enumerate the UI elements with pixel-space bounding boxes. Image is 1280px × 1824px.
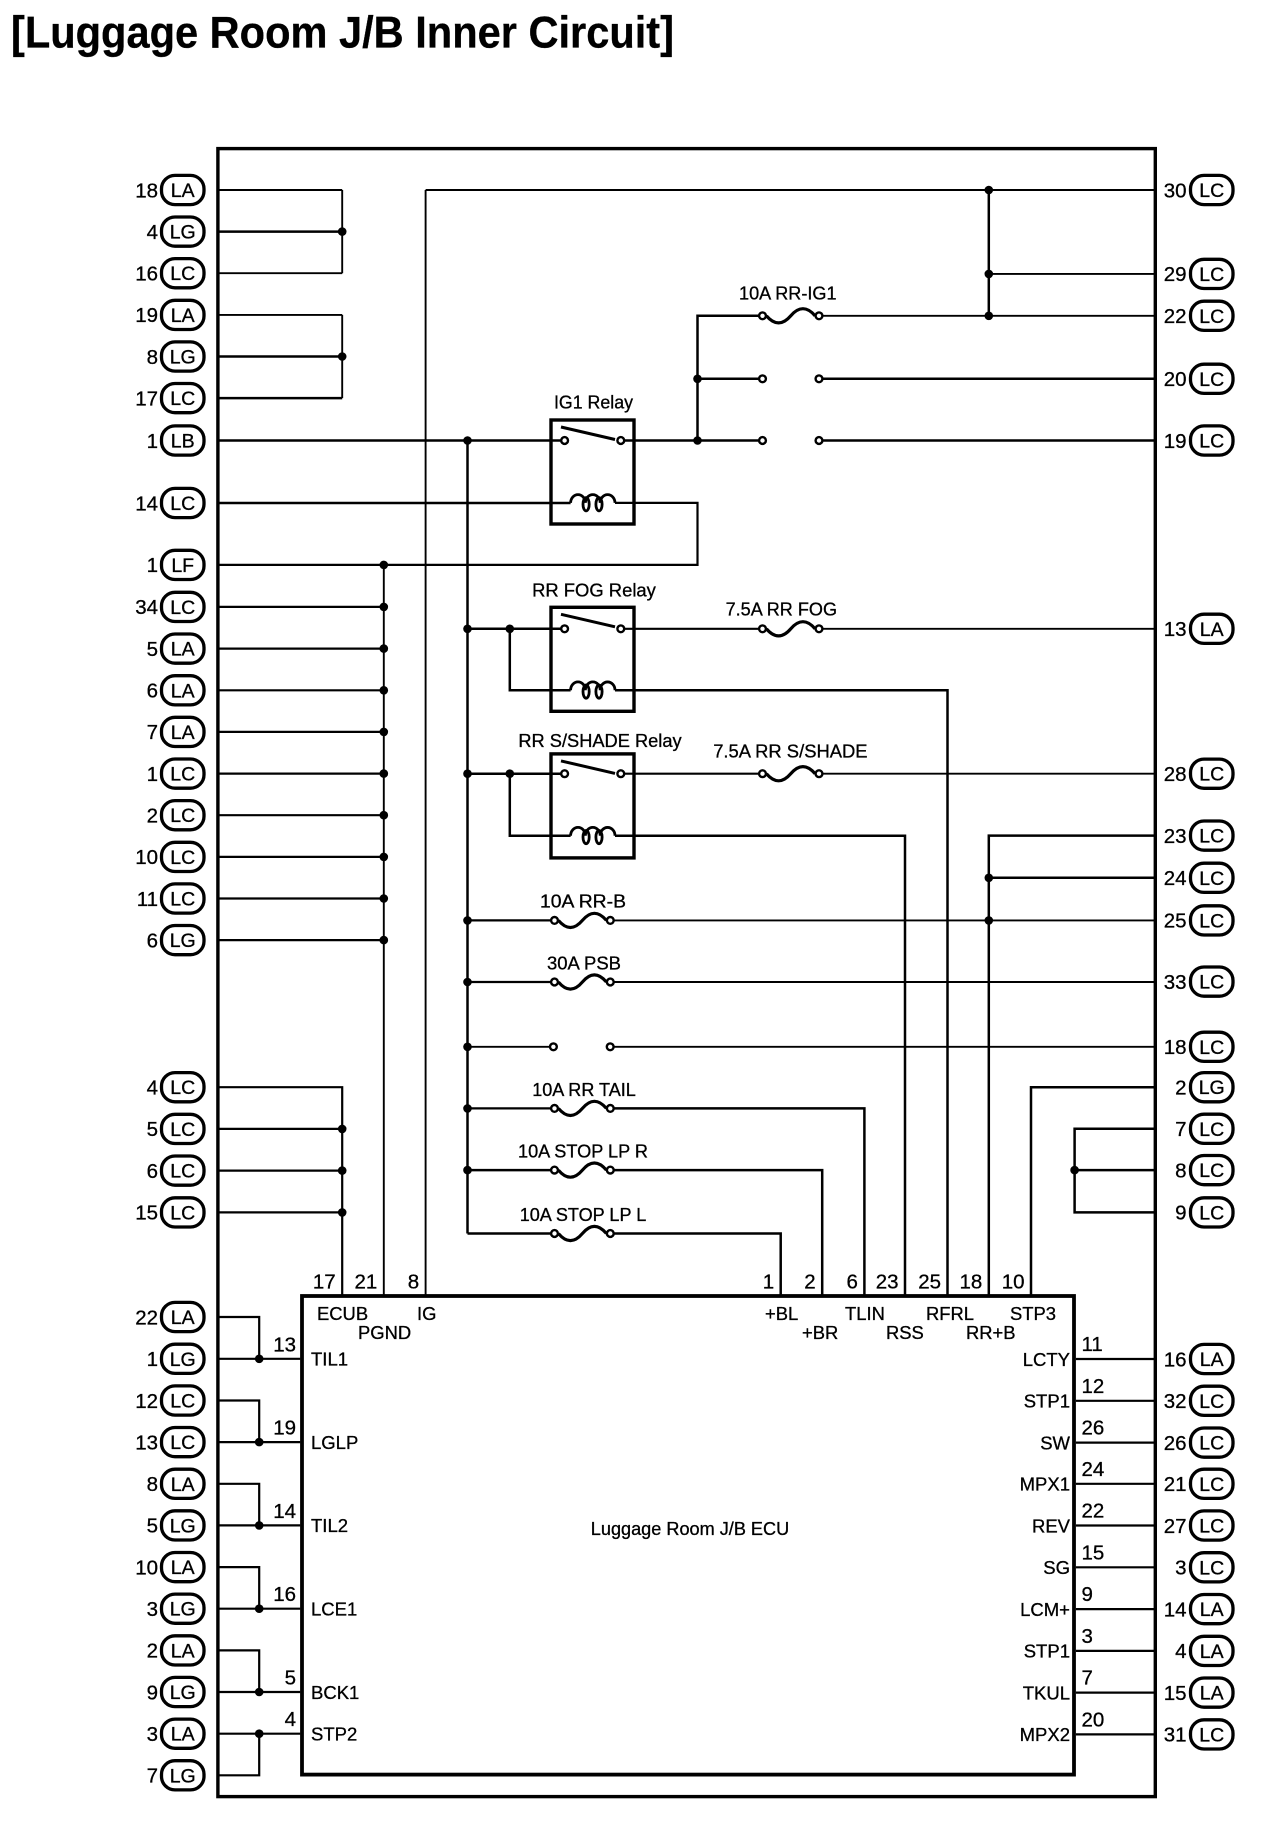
wire ECU pin 20 MPX2 to right pin <box>1076 1733 1154 1735</box>
node PGND junction 1 LC <box>380 769 389 778</box>
svg-text:4: 4 <box>147 1077 158 1100</box>
node ECUB junction 6 LC <box>338 1166 347 1175</box>
wire pin 19 LA <box>219 314 342 316</box>
svg-text:24: 24 <box>1164 867 1187 890</box>
wire RR FOG contact to fuse <box>625 628 759 630</box>
svg-text:LC: LC <box>1199 972 1224 994</box>
right connector pin 9 LC <box>1175 1198 1233 1227</box>
svg-text:8: 8 <box>147 346 158 369</box>
svg-text:8: 8 <box>1175 1159 1186 1182</box>
terminal pair 19 LC row <box>759 437 766 444</box>
svg-text:LC: LC <box>1199 180 1224 202</box>
svg-text:5: 5 <box>147 1118 158 1141</box>
left connector pin 11 LC <box>137 884 204 913</box>
wire pin 13 LC to ECU pin 19 <box>219 1441 300 1443</box>
svg-text:LA: LA <box>1200 1683 1224 1705</box>
left connector pin 10 LC <box>135 842 204 871</box>
svg-text:29: 29 <box>1164 263 1187 286</box>
svg-text:IG: IG <box>417 1303 436 1324</box>
svg-text:RR+B: RR+B <box>966 1322 1016 1343</box>
svg-text:3: 3 <box>147 1598 158 1621</box>
svg-text:20: 20 <box>1164 368 1187 391</box>
wire pin 5 LC <box>219 1128 342 1130</box>
svg-text:LA: LA <box>1200 1599 1224 1621</box>
terminal pair spare row <box>550 1043 557 1050</box>
wire ECU pin 15 SG to right pin <box>1076 1566 1154 1568</box>
svg-text:LG: LG <box>1199 1077 1225 1099</box>
left connector pin 34 LC <box>135 592 204 621</box>
svg-text:TIL2: TIL2 <box>311 1515 348 1536</box>
wire fuse RR TAIL to ECU pin 6 TLIN <box>614 1108 864 1296</box>
svg-text:4: 4 <box>147 221 158 244</box>
svg-text:7: 7 <box>1082 1667 1093 1690</box>
right connector pin 15 LA <box>1164 1678 1233 1707</box>
wire pin 15 LC <box>219 1211 342 1213</box>
wire RR S/SHADE coil feed <box>510 774 571 836</box>
svg-text:RSS: RSS <box>886 1322 924 1343</box>
svg-text:2: 2 <box>147 805 158 828</box>
svg-text:19: 19 <box>135 304 158 327</box>
svg-text:4: 4 <box>285 1708 296 1731</box>
svg-text:LA: LA <box>171 1474 195 1496</box>
left connector pin 4 LC <box>147 1073 204 1102</box>
svg-text:7: 7 <box>1175 1118 1186 1141</box>
fuse 7.5A RR FOG <box>759 625 766 632</box>
svg-text:LC: LC <box>1199 910 1224 932</box>
wire pin 4 LG <box>219 230 342 233</box>
svg-text:14: 14 <box>273 1500 296 1523</box>
node PGND junction 6 LA <box>380 686 389 695</box>
svg-text:3: 3 <box>1175 1557 1186 1580</box>
node 29 LC junction <box>985 270 994 279</box>
node IG1 output junction <box>693 436 702 445</box>
wire RR FOG coil to ECU pin 25 RFRL <box>615 690 948 1296</box>
svg-text:10: 10 <box>1002 1271 1025 1294</box>
svg-text:17: 17 <box>313 1271 336 1294</box>
svg-text:STP1: STP1 <box>1024 1391 1070 1412</box>
left connector pin 14 LC <box>135 488 204 517</box>
wire IG1 relay output to fuse <box>698 316 759 441</box>
svg-text:7: 7 <box>147 1765 158 1788</box>
svg-text:8: 8 <box>408 1271 419 1294</box>
svg-text:[Luggage Room J/B Inner Circui: [Luggage Room J/B Inner Circuit] <box>11 9 674 58</box>
wire fuse RR FOG to pin 13 LA <box>823 628 1154 630</box>
svg-text:LA: LA <box>171 305 195 327</box>
wire bus 30-29-22 LC <box>988 190 991 316</box>
right connector pin 13 LA <box>1164 614 1233 643</box>
node RR FOG feed 1 <box>463 625 472 634</box>
svg-text:LC: LC <box>1199 431 1224 453</box>
wire ECU pin 12 STP1 to right pin <box>1076 1400 1154 1402</box>
svg-text:LC: LC <box>1199 868 1224 890</box>
svg-text:RR FOG Relay: RR FOG Relay <box>532 580 657 601</box>
wire RR+B to RR FOG relay <box>468 628 561 631</box>
right connector pin 3 LC <box>1175 1553 1233 1582</box>
wire net IG horizontal to pin 30 LC <box>426 189 1154 191</box>
svg-text:33: 33 <box>1164 971 1187 994</box>
relay RR S/SHADE Relay switch arm <box>561 761 615 774</box>
wire ECU pin 22 REV to right pin <box>1076 1524 1154 1526</box>
node junction 1 LG <box>255 1355 264 1364</box>
svg-text:9: 9 <box>147 1681 158 1704</box>
node RR+B tap PSB <box>463 978 472 987</box>
right connector pin 29 LC <box>1164 259 1233 288</box>
wire pin 14 LC to IG1 relay coil <box>219 502 571 505</box>
right connector pin 30 LC <box>1164 175 1233 204</box>
svg-text:LA: LA <box>171 639 195 661</box>
node PGND junction 2 LC <box>380 811 389 820</box>
node PGND junction 34 LC <box>380 603 389 612</box>
svg-text:27: 27 <box>1164 1515 1187 1538</box>
svg-text:1: 1 <box>147 554 158 577</box>
svg-text:SG: SG <box>1043 1557 1070 1578</box>
left connector pin 5 LC <box>147 1114 204 1143</box>
svg-text:LG: LG <box>170 1682 196 1704</box>
svg-text:15: 15 <box>1082 1541 1105 1564</box>
wire pin 4 LC <box>219 1087 342 1296</box>
wire pin 3 LA to ECU pin 4 <box>219 1733 300 1735</box>
right connector pin 22 LC <box>1164 301 1233 330</box>
wire RR+B to fuse STOP LP R <box>468 1169 551 1172</box>
node ECUB junction 15 LC <box>338 1208 347 1217</box>
wire IG1 relay coil to 1 LF net <box>219 503 698 565</box>
svg-text:BCK1: BCK1 <box>311 1682 359 1703</box>
svg-text:LC: LC <box>1199 369 1224 391</box>
left connector pin 5 LA <box>147 634 204 663</box>
node PGND bus top <box>380 561 389 570</box>
wire pin 2 LA <box>219 1650 259 1692</box>
wire fuse STOP LP L to ECU pin 1 +BL <box>614 1234 781 1297</box>
right connector pin 19 LC <box>1164 426 1233 455</box>
left connector pin 18 LA <box>135 175 204 204</box>
svg-text:16: 16 <box>273 1583 296 1606</box>
wire ECU pin 11 LCTY to right pin <box>1076 1358 1154 1360</box>
fuse 10A RR-IG1 <box>759 312 766 319</box>
wire pin 10 LC to PGND bus <box>219 856 384 858</box>
svg-text:6: 6 <box>846 1271 857 1294</box>
relay RR FOG Relay box <box>551 607 634 711</box>
svg-text:LA: LA <box>171 722 195 744</box>
svg-text:LC: LC <box>170 805 195 827</box>
node junction 5 LG <box>255 1521 264 1530</box>
wire pin 10 LA <box>219 1567 259 1609</box>
svg-text:16: 16 <box>1164 1348 1187 1371</box>
svg-text:17: 17 <box>135 387 158 410</box>
svg-text:IG1 Relay: IG1 Relay <box>554 391 634 412</box>
svg-text:30A PSB: 30A PSB <box>547 953 621 974</box>
svg-text:LC: LC <box>170 1161 195 1183</box>
node RR+B bus top on 1 LB wire <box>463 436 472 445</box>
wire ECU pin 24 MPX1 to right pin <box>1076 1483 1154 1485</box>
svg-text:2: 2 <box>1175 1077 1186 1100</box>
svg-text:LC: LC <box>170 1432 195 1454</box>
relay IG1 Relay switch arm <box>561 427 615 440</box>
right connector pin 18 LC <box>1164 1032 1233 1061</box>
fuse 10A STOP LP R <box>551 1167 558 1174</box>
node RR+B tap RR TAIL <box>463 1104 472 1113</box>
svg-text:20: 20 <box>1082 1708 1105 1731</box>
svg-text:MPX2: MPX2 <box>1020 1724 1070 1745</box>
svg-text:5: 5 <box>285 1667 296 1690</box>
luggage room junction block border <box>218 149 1155 1797</box>
svg-text:LC: LC <box>1199 1202 1224 1224</box>
svg-text:LA: LA <box>171 680 195 702</box>
svg-text:PGND: PGND <box>358 1322 411 1343</box>
svg-text:1: 1 <box>147 430 158 453</box>
wire pin 12 LC <box>219 1401 259 1443</box>
wire pin 8 LG <box>219 355 342 358</box>
svg-text:7.5A RR S/SHADE: 7.5A RR S/SHADE <box>713 741 867 762</box>
relay RR FOG Relay contact terminals <box>561 625 568 632</box>
left connector pin 2 LC <box>147 801 204 830</box>
svg-text:TIL1: TIL1 <box>311 1349 348 1370</box>
svg-text:9: 9 <box>1175 1202 1186 1225</box>
node junction 13 LC <box>255 1438 264 1447</box>
wire ECU pin 9 LCM+ to right pin <box>1076 1608 1154 1610</box>
svg-text:LG: LG <box>170 1765 196 1787</box>
relay IG1 Relay coil <box>571 495 615 503</box>
svg-text:34: 34 <box>135 596 158 619</box>
node PGND junction 6 LG <box>380 936 389 945</box>
left connector pin 5 LG <box>147 1511 204 1540</box>
svg-text:LC: LC <box>170 493 195 515</box>
svg-text:9: 9 <box>1082 1583 1093 1606</box>
left connector pin 13 LC <box>135 1428 204 1457</box>
left connector pin 1 LB <box>147 426 204 455</box>
wire pin 23 LC <box>989 836 1154 1296</box>
svg-text:LC: LC <box>1199 306 1224 328</box>
svg-text:26: 26 <box>1164 1432 1187 1455</box>
wire bus PGND to ECU pin 21 <box>383 565 385 1296</box>
wire fuse STOP LP R to ECU pin 2 +BR <box>614 1170 822 1296</box>
svg-text:REV: REV <box>1032 1515 1071 1536</box>
wire pin 24 LC <box>989 877 1154 880</box>
wire RR S/SHADE coil to ECU pin 23 RSS <box>615 836 905 1296</box>
svg-text:25: 25 <box>1164 910 1187 933</box>
left connector pin 1 LG <box>147 1344 204 1373</box>
left connector pin 16 LC <box>135 259 204 288</box>
svg-text:7: 7 <box>147 721 158 744</box>
svg-text:1: 1 <box>147 1348 158 1371</box>
svg-text:LA: LA <box>171 1724 195 1746</box>
node IG / 29-22 LC bus top <box>985 186 994 195</box>
fuse 30A PSB <box>551 979 558 986</box>
right connector pin 8 LC <box>1175 1156 1233 1185</box>
svg-text:LC: LC <box>170 1391 195 1413</box>
svg-text:15: 15 <box>135 1202 158 1225</box>
wire pin 29 LC <box>989 273 1154 275</box>
svg-text:19: 19 <box>1164 430 1187 453</box>
svg-text:16: 16 <box>135 263 158 286</box>
wire bus group A <box>341 190 343 273</box>
terminal pair 20 LC row <box>759 375 766 382</box>
wire pin 17 LC <box>219 397 342 400</box>
svg-text:LC: LC <box>170 889 195 911</box>
ECU Luggage Room J/B ECU box <box>302 1296 1074 1775</box>
left connector pin 7 LG <box>147 1761 204 1790</box>
wire pin 3 LG to ECU pin 16 <box>219 1608 300 1610</box>
svg-text:13: 13 <box>1164 618 1187 641</box>
left connector pin 6 LA <box>147 676 204 705</box>
wire contact to pin 19 LC <box>823 439 1154 442</box>
svg-text:10: 10 <box>135 1556 158 1579</box>
svg-text:LC: LC <box>1199 1391 1224 1413</box>
svg-text:11: 11 <box>137 888 158 911</box>
node junction 3 LG <box>255 1604 264 1613</box>
svg-text:18: 18 <box>1164 1036 1187 1059</box>
relay IG1 Relay box <box>551 420 634 524</box>
svg-text:LC: LC <box>1199 826 1224 848</box>
svg-text:3: 3 <box>1082 1625 1093 1648</box>
node 8 LC junction <box>1070 1166 1079 1175</box>
right connector pin 27 LC <box>1164 1511 1233 1540</box>
node junction B <box>338 352 347 361</box>
svg-text:26: 26 <box>1082 1417 1105 1440</box>
svg-text:LC: LC <box>1199 764 1224 786</box>
svg-text:LA: LA <box>1200 619 1224 641</box>
svg-text:13: 13 <box>135 1431 158 1454</box>
svg-text:28: 28 <box>1164 763 1187 786</box>
node junction 3 LA <box>255 1729 264 1738</box>
svg-text:5: 5 <box>147 1515 158 1538</box>
svg-text:LCM+: LCM+ <box>1020 1599 1070 1620</box>
svg-text:LC: LC <box>1199 1119 1224 1141</box>
svg-text:LC: LC <box>1199 1724 1224 1746</box>
wire pin 11 LC to PGND bus <box>219 897 384 899</box>
svg-text:LC: LC <box>1199 1160 1224 1182</box>
svg-text:LF: LF <box>171 555 194 577</box>
svg-text:LC: LC <box>170 764 195 786</box>
wire pin 1 LB to IG1 relay <box>219 439 561 442</box>
svg-text:LC: LC <box>1199 264 1224 286</box>
relay RR S/SHADE Relay contact terminals <box>561 770 568 777</box>
fuse 10A RR-B <box>551 917 558 924</box>
svg-text:LC: LC <box>1199 1516 1224 1538</box>
left connector pin 9 LG <box>147 1677 204 1706</box>
wire ECU pin 26 SW to right pin <box>1076 1441 1154 1443</box>
wire pin 16 LC <box>219 272 342 274</box>
node RR+B tap spare <box>463 1043 472 1052</box>
svg-text:1: 1 <box>147 763 158 786</box>
wire pin 7 LC <box>1075 1129 1154 1213</box>
svg-text:LC: LC <box>170 847 195 869</box>
svg-text:LC: LC <box>170 388 195 410</box>
svg-text:6: 6 <box>147 1160 158 1183</box>
wire spare terminal to pin 18 LC <box>614 1046 1154 1048</box>
left connector pin 10 LA <box>135 1553 204 1582</box>
svg-text:LA: LA <box>171 1557 195 1579</box>
wire to contact 20 LC row <box>698 378 759 381</box>
left connector pin 1 LF <box>147 550 204 579</box>
wire pin 6 LC <box>219 1169 342 1171</box>
svg-text:10A RR TAIL: 10A RR TAIL <box>532 1079 636 1100</box>
wire pin 8 LA <box>219 1484 259 1526</box>
left connector pin 17 LC <box>135 384 204 413</box>
svg-text:7.5A RR FOG: 7.5A RR FOG <box>726 599 837 620</box>
node RR+B tap STOP LP R <box>463 1166 472 1175</box>
wire fuse RR-B to pin 25 LC <box>614 919 1154 921</box>
svg-text:LA: LA <box>1200 1641 1224 1663</box>
svg-text:12: 12 <box>135 1390 158 1413</box>
wire RR+B to fuse RR TAIL <box>468 1107 551 1109</box>
svg-text:STP3: STP3 <box>1010 1303 1056 1324</box>
svg-text:22: 22 <box>1164 305 1187 328</box>
wire ECU pin 3 STP1 to right pin <box>1076 1650 1154 1652</box>
node PGND junction 10 LC <box>380 853 389 862</box>
wire RR+B to fuse STOP LP L <box>468 1232 551 1235</box>
svg-text:LCE1: LCE1 <box>311 1599 357 1620</box>
svg-text:3: 3 <box>147 1723 158 1746</box>
svg-text:LB: LB <box>171 431 195 453</box>
svg-text:13: 13 <box>273 1333 296 1356</box>
right connector pin 21 LC <box>1164 1469 1233 1498</box>
wire pin 2 LC to PGND bus <box>219 814 384 816</box>
svg-text:19: 19 <box>273 1417 296 1440</box>
wire fuse PSB to pin 33 LC <box>614 981 1154 983</box>
wire pin 9 LG to ECU pin 5 <box>219 1691 300 1693</box>
svg-text:LC: LC <box>1199 1433 1224 1455</box>
svg-text:LC: LC <box>170 1119 195 1141</box>
node 24 LC junction <box>985 874 994 883</box>
svg-text:2: 2 <box>804 1271 815 1294</box>
right connector pin 7 LC <box>1175 1114 1233 1143</box>
right connector pin 16 LA <box>1164 1344 1233 1373</box>
svg-text:18: 18 <box>135 179 158 202</box>
svg-text:LG: LG <box>170 222 196 244</box>
svg-text:LC: LC <box>170 263 195 285</box>
svg-text:LC: LC <box>170 1202 195 1224</box>
node RR S/SHADE feed 1 <box>463 769 472 778</box>
node PGND junction 7 LA <box>380 728 389 737</box>
svg-text:6: 6 <box>147 680 158 703</box>
left connector pin 12 LC <box>135 1386 204 1415</box>
relay RR FOG Relay coil <box>571 682 615 690</box>
svg-text:LCTY: LCTY <box>1023 1349 1070 1370</box>
right connector pin 20 LC <box>1164 364 1233 393</box>
svg-text:10: 10 <box>135 846 158 869</box>
svg-text:LC: LC <box>1199 1037 1224 1059</box>
svg-text:SW: SW <box>1040 1432 1070 1453</box>
wire bus RR+B vertical <box>466 441 469 1234</box>
wire pin 34 LC to PGND bus <box>219 606 384 608</box>
right connector pin 26 LC <box>1164 1428 1233 1457</box>
right connector pin 28 LC <box>1164 759 1233 788</box>
svg-text:10A RR-B: 10A RR-B <box>540 891 626 912</box>
node ECUB junction 5 LC <box>338 1125 347 1134</box>
left connector pin 15 LC <box>135 1198 204 1227</box>
svg-text:LGLP: LGLP <box>311 1432 358 1453</box>
svg-text:32: 32 <box>1164 1390 1187 1413</box>
svg-text:4: 4 <box>1175 1640 1186 1663</box>
fuse 10A RR TAIL <box>551 1105 558 1112</box>
relay RR FOG Relay switch arm <box>561 614 615 627</box>
svg-text:TKUL: TKUL <box>1023 1682 1070 1703</box>
wire RR+B to RR S/SHADE relay <box>468 772 561 775</box>
svg-text:12: 12 <box>1082 1375 1105 1398</box>
wire RR+B to fuse RR-B <box>468 919 551 921</box>
svg-text:10A STOP LP R: 10A STOP LP R <box>518 1141 648 1162</box>
svg-text:10A RR-IG1: 10A RR-IG1 <box>739 283 837 304</box>
wire pin 7 LA to PGND bus <box>219 731 384 733</box>
wire ECU pin 7 TKUL to right pin <box>1076 1691 1154 1693</box>
svg-text:6: 6 <box>147 929 158 952</box>
svg-text:10A STOP LP L: 10A STOP LP L <box>520 1204 647 1225</box>
svg-text:24: 24 <box>1082 1458 1105 1481</box>
right connector pin 14 LA <box>1164 1595 1233 1624</box>
node RR-IG1 tap 20 LC row <box>693 375 702 384</box>
svg-text:LA: LA <box>171 1307 195 1329</box>
svg-text:LA: LA <box>171 1640 195 1662</box>
